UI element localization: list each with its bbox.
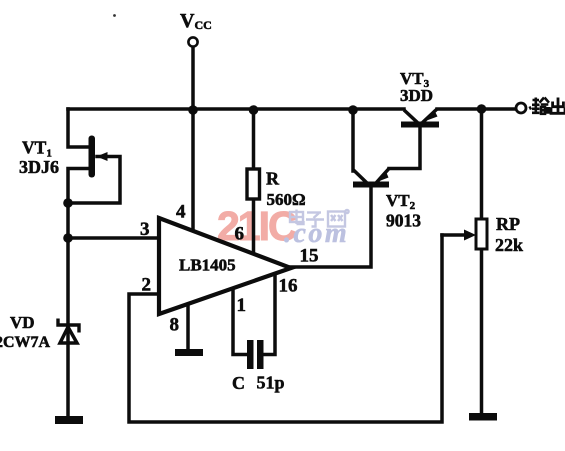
wire pin 3	[68, 236, 159, 240]
node gate-source junction	[63, 198, 73, 208]
wire RP top to rail	[480, 109, 484, 219]
label output 出 glyph	[551, 98, 565, 114]
wire VT2 emitter to VT3 base	[389, 128, 420, 169]
wire VT1 source to left vertical down to zener	[68, 169, 88, 418]
transistor VT3 emitter diagonal	[422, 109, 437, 123]
svg-text:2: 2	[142, 275, 152, 296]
transistor VT3 emitter arrow	[424, 110, 438, 122]
transistor VT1 gate arrow	[97, 152, 108, 161]
svg-text:C: C	[232, 373, 245, 393]
svg-text:3DD: 3DD	[400, 86, 433, 105]
wire left vertical from rail to VT1 drain	[68, 109, 88, 147]
svg-text:1: 1	[237, 295, 247, 316]
svg-text:8: 8	[170, 315, 180, 336]
svg-text:VCC: VCC	[180, 10, 212, 32]
svg-text:RP: RP	[496, 214, 520, 234]
RP wiper arrow	[464, 230, 476, 241]
svg-text:9013: 9013	[386, 211, 421, 231]
wire pin 8 to ground	[186, 303, 190, 349]
svg-text:4: 4	[176, 202, 186, 223]
svg-text:6: 6	[235, 224, 245, 245]
svg-text:3DJ6: 3DJ6	[19, 157, 59, 177]
wire pin 15 to VT2 base	[291, 187, 371, 267]
wire VT2 collector riser	[351, 110, 355, 171]
ground (RP)	[469, 413, 497, 421]
svg-text:2CW7A: 2CW7A	[0, 334, 51, 351]
watermark .com script	[284, 218, 349, 249]
watermark 21IC logo	[217, 203, 297, 249]
wire RP bottom to ground	[480, 249, 484, 414]
wire top rail right (VT3 emitter to output)	[437, 107, 516, 111]
svg-text:VT2: VT2	[386, 191, 416, 212]
transistor VT2 base bar	[353, 182, 389, 188]
svg-text:51p: 51p	[257, 373, 285, 393]
zener diode VD cathode bar	[58, 319, 79, 333]
stray tick before output label	[530, 107, 532, 110]
node Vcc rail / pin4 junction	[188, 105, 198, 115]
transistor VT2 emitter diagonal	[376, 169, 389, 184]
transistor VT3 base bar	[401, 122, 439, 128]
svg-text:560Ω: 560Ω	[267, 190, 306, 209]
resistor R body	[247, 169, 260, 199]
capacitor C left plate	[247, 340, 254, 369]
wire pin 1 to capacitor left plate	[233, 288, 247, 355]
resistor RP body	[476, 219, 487, 249]
svg-text:15: 15	[300, 246, 319, 267]
transistor VT2 emitter arrow	[376, 171, 389, 183]
terminal Vcc	[188, 37, 197, 46]
watermark 电子网 glyphs	[290, 210, 349, 227]
svg-text:3: 3	[140, 219, 150, 240]
wire R branch from rail to pin 6	[252, 110, 256, 169]
node rail / RP junction	[477, 104, 487, 114]
wire capacitor right plate to pin 16	[264, 274, 276, 355]
capacitor C right plate	[257, 340, 264, 369]
svg-text:R: R	[266, 169, 280, 189]
svg-text:VD: VD	[10, 313, 35, 332]
zener diode VD anode triangle	[60, 327, 77, 343]
ground (pin 8)	[175, 349, 203, 356]
node rail / R junction	[249, 105, 259, 115]
wire top rail left (Vcc rail to VT3 collector)	[68, 107, 404, 111]
transistor Q VT1 channel bar	[89, 136, 96, 178]
transistor VT2 collector diagonal	[354, 170, 368, 183]
svg-text:22k: 22k	[495, 235, 523, 255]
node pin3 / zener junction	[63, 233, 73, 243]
wire RP wiper lead	[442, 233, 465, 237]
svg-text:LB1405: LB1405	[179, 256, 236, 275]
ground (zener)	[55, 416, 83, 424]
transistor VT3 collector diagonal	[404, 110, 418, 123]
op-amp U1 LB1405 triangle	[159, 218, 291, 314]
scan speck	[113, 14, 116, 17]
terminal output	[516, 103, 526, 113]
wire R bottom to pin 6	[252, 199, 256, 253]
wire VT1 gate loop	[68, 157, 120, 204]
label output 输 glyph	[532, 98, 549, 115]
node rail / VT2 collector junction	[348, 105, 358, 115]
wire pin 2 down and bottom rail to RP wiper riser	[129, 235, 442, 422]
svg-text:16: 16	[279, 276, 298, 297]
wire Vcc drop to rail and pin 4	[191, 47, 195, 231]
svg-text:.com: .com	[284, 218, 349, 249]
